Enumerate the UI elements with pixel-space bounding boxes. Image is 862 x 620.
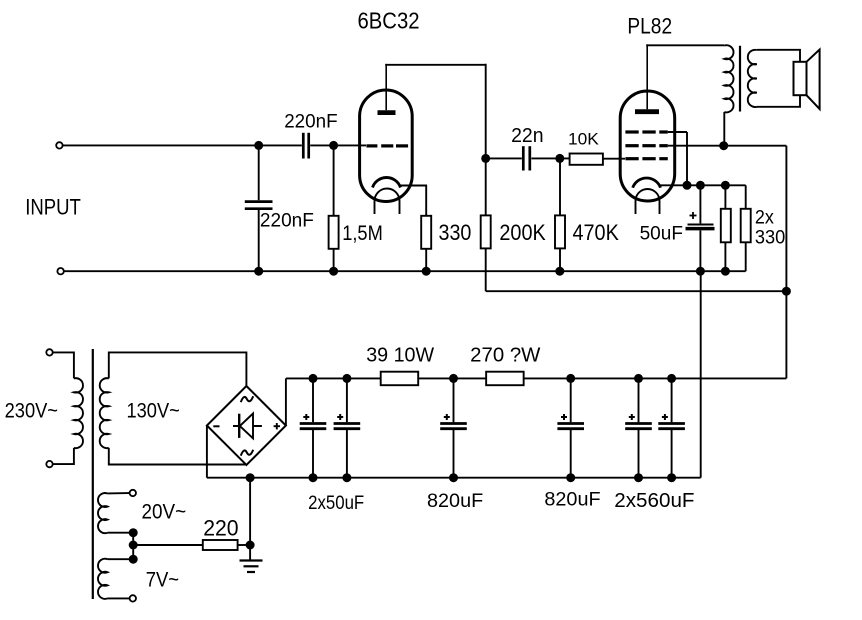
capacitor C7 820uF — [440, 378, 467, 477]
transformer T1 secondary 7V winding — [98, 559, 136, 602]
label C4 value 50uF — [640, 223, 683, 245]
transformer T1 secondary 130V winding — [100, 352, 247, 464]
capacitor C3 22n — [523, 146, 530, 170]
transformer T2 secondary winding — [748, 50, 757, 107]
wire B+ feed row (R3 bottom to node E) — [486, 290, 787, 292]
junction T2 primary to B+ row — [719, 141, 728, 150]
label tube V2 PL82 — [627, 13, 672, 38]
label C8 value 820uF — [544, 489, 600, 511]
input terminal J2 (bottom) — [57, 268, 63, 274]
junction C4 bottom on ground rail — [696, 267, 730, 276]
resistor R3 200K (V1 anode load) — [481, 158, 491, 291]
transformer T1 primary winding 230V — [53, 352, 83, 464]
svg-text:7V~: 7V~ — [146, 569, 179, 592]
BR1 AC mark bottom — [241, 450, 253, 456]
label tube V1 6BC32 — [358, 7, 420, 33]
wire V2 cathode row — [660, 184, 746, 186]
wire V1 cathode to R2 — [400, 186, 427, 216]
capacitor C4 50uF cathode bypass — [686, 185, 715, 271]
capacitor C5 50uF — [300, 378, 327, 477]
wire B+ riser (node E column) — [785, 146, 787, 379]
transformer T1 secondary 20V winding — [98, 490, 136, 533]
label C2 value 220nF — [260, 210, 314, 232]
label INPUT — [25, 195, 81, 220]
wire heater winding series link — [129, 528, 138, 564]
tube V2 grid g1 control (dashed) — [625, 157, 667, 160]
svg-text:220nF: 220nF — [284, 111, 337, 133]
transformer T1 core — [92, 349, 94, 599]
wire node F to PSU 0V rail — [249, 478, 251, 545]
node F (ground tap) — [246, 541, 255, 550]
input terminal J1 (top) — [56, 142, 62, 148]
tube V2 heater — [636, 189, 660, 214]
resistor R7 330 (cathode, parallel) — [741, 185, 751, 271]
label R2 value 330 — [439, 220, 472, 245]
wire top input rail — [63, 144, 366, 146]
svg-text:330: 330 — [439, 220, 472, 245]
wire V2 anode to T2 primary — [646, 44, 724, 46]
wire C3 to node D — [531, 157, 569, 159]
wire BR1 minus to 0V rail — [206, 426, 208, 478]
BR1 AC mark top — [241, 396, 253, 402]
wire heater tap to R10 — [133, 544, 203, 546]
label C7 value 820uF — [427, 490, 483, 512]
node B (grid node, top rail after C1) — [329, 141, 338, 276]
junction cathode-R6 — [721, 181, 730, 190]
wire BR1 plus to B+ rail — [285, 378, 287, 425]
svg-text:820uF: 820uF — [427, 490, 483, 512]
svg-text:470K: 470K — [573, 220, 620, 245]
junction dots PSU B+ rail — [309, 374, 677, 383]
resistor R8 39 10W — [381, 372, 419, 386]
label T1 secondary 20V~ — [142, 501, 187, 524]
svg-text:INPUT: INPUT — [25, 195, 81, 220]
svg-text:20V~: 20V~ — [142, 501, 187, 524]
svg-text:2x50uF: 2x50uF — [308, 492, 364, 514]
junction cathode-C4 — [696, 181, 705, 190]
label R8 value 39 10W — [366, 345, 434, 367]
node C (V1 anode / C3 node) — [481, 154, 490, 163]
svg-text:130V~: 130V~ — [127, 399, 180, 422]
BR1 plus mark — [274, 423, 280, 429]
svg-text:50uF: 50uF — [640, 223, 683, 245]
junction g3-cathode — [683, 181, 692, 190]
wire PSU B+ rail — [286, 377, 787, 379]
speaker LS1 — [794, 50, 820, 110]
resistor R6 330 (cathode) — [721, 185, 731, 271]
label T1 secondary 7V~ — [146, 569, 179, 592]
capacitor C1 220nF series — [303, 133, 308, 159]
resistor R5 10K (grid stopper) — [570, 154, 625, 165]
node A (top rail junction at shunt cap) — [254, 141, 263, 276]
svg-text:6BC32: 6BC32 — [358, 7, 420, 33]
resistor R4 470K (V2 grid leak) — [555, 158, 565, 271]
label R10 value 220 — [203, 516, 238, 541]
svg-text:PL82: PL82 — [627, 13, 672, 38]
resistor R1 1,5M — [329, 145, 339, 271]
label T1 primary 230V~ — [5, 399, 58, 422]
resistor R2 330 — [421, 216, 431, 271]
mains terminal P2 — [46, 461, 52, 467]
node D (V2 grid leak node) — [555, 154, 564, 276]
wire T2 secondary to speaker — [757, 50, 800, 107]
wire bottom ground rail — [64, 270, 746, 272]
svg-text:1,5M: 1,5M — [342, 222, 383, 245]
svg-text:270 ?W: 270 ?W — [470, 345, 540, 367]
transformer T2 core — [739, 46, 741, 112]
junction dots PSU 0V rail — [246, 473, 676, 482]
capacitor C8 820uF — [557, 378, 584, 477]
tube V1 cathode — [373, 178, 401, 188]
svg-text:200K: 200K — [499, 220, 546, 245]
bridge rectifier BR1 — [207, 386, 286, 465]
ground — [240, 545, 263, 572]
svg-text:220nF: 220nF — [260, 210, 314, 232]
svg-text:10K: 10K — [568, 130, 599, 149]
label C1 value 220nF — [284, 111, 337, 133]
resistor R9 270 ?W — [486, 372, 524, 386]
tube V1 anode — [378, 64, 396, 113]
svg-text:820uF: 820uF — [544, 489, 600, 511]
capacitor C9 560uF — [625, 378, 652, 477]
tube V1 grid (dashed) — [366, 144, 408, 147]
svg-text:2x: 2x — [755, 208, 774, 229]
capacitor C10 560uF — [658, 378, 685, 477]
tube V2 grid g3 (dashed) + tie to cathode — [625, 132, 687, 185]
label R5 value 10K — [568, 130, 599, 149]
tube V2 PL82 envelope — [620, 91, 675, 201]
transformer T2 primary winding — [724, 45, 733, 145]
svg-text:2x560uF: 2x560uF — [614, 490, 694, 512]
capacitor C2 220nF shunt — [245, 145, 273, 271]
label C4 polarity + — [690, 212, 697, 219]
label T1 secondary 130V~ — [127, 399, 180, 422]
wire PSU 0V to signal ground — [700, 271, 702, 478]
wire V1 anode to node C — [385, 64, 486, 159]
wire PSU 0V rail — [207, 477, 701, 479]
label C3 value 22n — [511, 125, 543, 147]
tube V2 cathode — [633, 178, 661, 188]
label C5/C6 value 2x50uF — [308, 492, 364, 514]
BR1 diode symbol — [233, 414, 262, 439]
tube V2 anode — [635, 44, 659, 111]
tube V1 6BC32 envelope — [360, 90, 413, 202]
resistor R10 220 — [203, 540, 250, 550]
tube V2 grid g2 screen (dashed) + wire to B+ — [625, 144, 786, 147]
tube V1 heater — [375, 189, 400, 215]
label R1 value 1,5M — [342, 222, 383, 245]
BR1 minus mark — [213, 425, 219, 427]
node E (B+ riser junction) — [782, 287, 791, 296]
capacitor C6 50uF — [334, 378, 361, 477]
label R4 value 470K — [573, 220, 620, 245]
junction R2 bottom on ground rail — [422, 267, 431, 276]
svg-text:330: 330 — [755, 226, 786, 248]
svg-text:22n: 22n — [511, 125, 543, 147]
svg-text:230V~: 230V~ — [5, 399, 58, 422]
label C9/C10 value 2x560uF — [614, 490, 694, 512]
mains terminal P1 — [46, 349, 52, 355]
wire node C to C3 — [486, 157, 522, 159]
label R6/R7 value 2x330 — [755, 208, 786, 249]
label R9 value 270 ?W — [470, 345, 540, 367]
svg-text:220: 220 — [203, 516, 238, 541]
label R3 value 200K — [499, 220, 546, 245]
svg-text:39 10W: 39 10W — [366, 345, 434, 367]
